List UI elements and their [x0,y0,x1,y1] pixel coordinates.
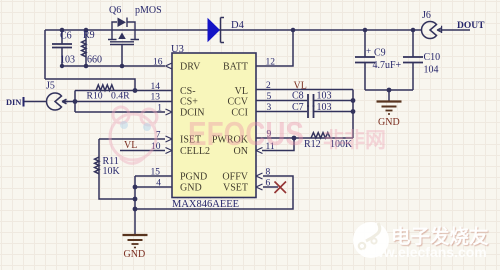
wire VL vertical [352,90,354,139]
junction C8 right [351,98,356,103]
svg-text:R9: R9 [83,30,95,41]
svg-text:6: 6 [266,179,271,189]
svg-text:C6: C6 [60,31,72,42]
junction R9 top [84,28,89,33]
svg-text:DIN: DIN [6,98,21,107]
svg-text:CS+: CS+ [180,97,198,108]
svg-text:DOUT: DOUT [457,21,485,31]
junction return gnd [133,207,138,212]
no-connect X on pin6 [275,182,287,194]
junction R11 gnd [133,197,138,202]
svg-text:C8: C8 [292,91,304,102]
wire pin11 link [262,138,294,151]
arrow pin 6 VSET [256,184,263,190]
svg-text:J6: J6 [422,10,431,21]
junction BATT riser [291,28,296,33]
junction R9 bottom [84,64,89,69]
wire CELL2 VL stub [120,150,165,152]
wire R9 stubs [85,30,87,66]
junction C6 top [60,28,65,33]
wire ISET row [99,138,165,140]
svg-text:CCV: CCV [227,97,248,108]
svg-text:C7: C7 [292,102,304,113]
wire left vertical [44,30,46,79]
svg-text:VSET: VSET [223,183,248,194]
svg-text:+: + [366,46,371,56]
wire J5 vertical [74,91,76,113]
DIN port bar [23,97,25,107]
connector J5 [47,93,68,110]
wire pin12 riser [256,30,293,66]
svg-text:R10: R10 [87,91,103,102]
svg-text:10K: 10K [103,166,121,177]
chip pin names [180,62,249,194]
wire pin6 stub [263,186,278,188]
junction R10 right [133,88,138,93]
svg-text:EFOCUS: EFOCUS [188,115,304,152]
svg-text:VL: VL [294,81,307,92]
junction pin9-pin11 [292,136,297,141]
svg-text:GND: GND [378,117,400,128]
watermark mascot [110,107,157,164]
capacitor C8 plates [308,94,314,107]
connector J6 [422,22,442,39]
svg-text:2: 2 [266,81,271,91]
ground symbol right [377,102,402,115]
svg-text:103: 103 [317,91,332,102]
svg-text:0.4R: 0.4R [111,91,130,102]
svg-text:14: 14 [151,82,161,92]
wire DRV rail [62,65,165,67]
wire R11 leads [99,139,135,199]
junction GND right [387,88,392,93]
wire CS- link horizontal [45,79,135,91]
svg-text:GND: GND [180,183,202,194]
wire pin2 VL row [256,89,353,91]
arrow pin 16 DRV [166,63,173,69]
wire pin5 C8 row [256,100,353,102]
svg-text:PGND: PGND [180,172,207,183]
svg-text:VL: VL [235,86,248,97]
wire DCIN row pin1 [75,111,165,113]
resistor R9 zigzag [82,40,86,57]
junction pin4 gnd [133,185,138,190]
wire C10 leads [412,30,414,90]
wire PGND row [135,175,172,177]
net labels + GND text [124,81,400,261]
arrow pin 7 ISET [166,136,173,142]
svg-text:CS-: CS- [180,86,196,97]
wire J5 row to pin13 [24,101,172,103]
resistor R12 zigzag [311,133,330,138]
wire J6 out to DOUT [439,29,471,31]
svg-text:pMOS: pMOS [135,5,162,16]
pin arrows into chip left [166,63,263,190]
arrow pin 10 CELL2 [166,148,173,154]
wire bottom return loop [135,176,293,209]
IC U1 chip body [172,53,256,198]
svg-text:J5: J5 [46,81,55,92]
svg-text:MAX846AEEE: MAX846AEEE [172,199,239,210]
svg-text:OFFV: OFFV [222,172,248,183]
svg-text:8: 8 [266,168,271,178]
svg-text:C9: C9 [374,48,386,59]
svg-text:U3: U3 [171,44,184,55]
junction C6 bottom [60,64,64,68]
junction C9 top [363,28,368,33]
wire R10 row to pin14 [75,90,172,92]
wire pin9 R12 row [256,137,353,139]
junction C10 top [411,28,416,33]
svg-text:13: 13 [151,93,161,103]
wire C9 leads [364,30,366,90]
svg-text:3: 3 [267,103,272,113]
svg-text:104: 104 [424,65,439,76]
capacitor C9 plates [355,57,375,63]
svg-text:GND: GND [124,249,146,260]
transistor Q6 pMOS [108,18,139,45]
ground symbol left [123,235,148,248]
svg-text:www.elecfans.com: www.elecfans.com [361,244,487,260]
svg-text:16: 16 [153,58,163,68]
pin numbers [151,58,276,189]
svg-text:R12: R12 [304,139,321,150]
svg-text:5: 5 [267,92,272,102]
svg-text:VL: VL [124,140,137,151]
wire top rail [45,29,422,31]
junction Q6 gate [120,64,125,69]
svg-text:Q6: Q6 [109,5,121,16]
svg-text:1: 1 [157,104,162,114]
capacitor C7 plates [308,105,314,118]
arrow pin 8 OFFV [256,173,263,179]
svg-text:C10: C10 [424,52,441,63]
svg-text:15: 15 [151,168,161,178]
junction C7 right [351,109,356,114]
junction J5 node [73,99,78,104]
svg-text:D4: D4 [231,20,245,31]
wire pin4 row [135,186,172,188]
capacitor C10 plates [403,57,423,63]
arrow pin 1 DCIN [166,109,173,115]
diode D4 [208,18,221,42]
wire Q6 gate stem [121,45,123,67]
resistor R11 zigzag [95,157,99,174]
wire GND main vertical [134,176,136,235]
capacitor C6 plates [52,44,423,118]
svg-text:非非网: 非非网 [323,129,386,152]
svg-text:660: 660 [87,55,102,66]
svg-text:BATT: BATT [223,62,248,73]
svg-text:103: 103 [317,102,332,113]
wire gnd stub right [388,90,390,101]
wire C6 stubs [61,30,63,66]
resistor R10 zigzag [96,85,114,91]
svg-text:12: 12 [266,58,276,68]
arrow pin 11 ON [256,148,263,154]
elecfans watermark logo [353,222,489,260]
wire pin3 C7 row [256,111,353,113]
svg-text:103: 103 [60,55,75,66]
svg-text:DRV: DRV [180,62,201,73]
svg-text:4.7uF+: 4.7uF+ [373,60,402,71]
svg-text:4: 4 [156,179,161,189]
wire C9-C10 bottom link [365,89,413,91]
